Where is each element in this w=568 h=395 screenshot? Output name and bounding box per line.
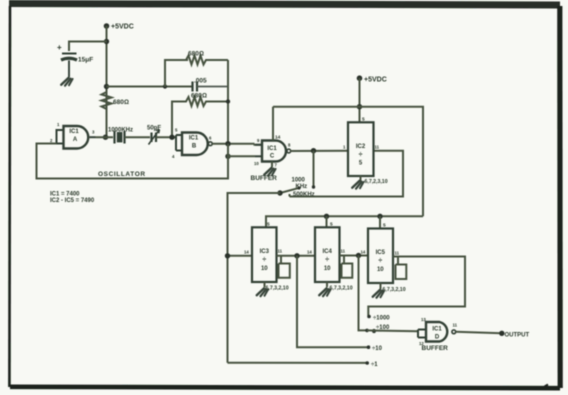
wire IC5 ground stub [380, 283, 382, 289]
svg-text:A: A [73, 137, 78, 143]
svg-text:2: 2 [50, 138, 53, 143]
svg-text:1: 1 [57, 122, 60, 127]
resistor R3 680 ohm (IC1B feedback) [172, 93, 228, 138]
node K (IC5 rail tap) [377, 214, 382, 219]
node R3/output leg [226, 99, 230, 103]
svg-text:10: 10 [377, 267, 384, 273]
parts list note [50, 192, 95, 205]
svg-text:IC1: IC1 [432, 327, 442, 333]
svg-text:680Ω: 680Ω [188, 51, 204, 58]
node div1000 contact [367, 315, 371, 319]
wire R2 left leg [165, 60, 188, 87]
node E (IC1B input / R3) [169, 135, 174, 140]
wire S2 common into IC1D [367, 329, 418, 332]
svg-text:IC4: IC4 [323, 249, 333, 255]
resistor R2 680 ohm (top) [186, 51, 228, 65]
svg-text:IC3: IC3 [260, 249, 270, 255]
svg-text:.005: .005 [194, 78, 207, 85]
svg-text:14: 14 [307, 250, 312, 255]
svg-text:6: 6 [209, 136, 212, 141]
wire node G to IC1C lower input [228, 144, 255, 157]
svg-text:680Ω: 680Ω [113, 99, 129, 106]
wire +5 to counters rail [266, 216, 423, 227]
svg-text:C: C [270, 154, 275, 160]
svg-text:÷10: ÷10 [372, 346, 383, 352]
wire div100 drop [359, 256, 368, 331]
+5VDC terminal (right) [357, 75, 387, 83]
wire IC2 ground stub [360, 176, 362, 182]
trimmer capacitor C3 50pF [147, 126, 161, 145]
jumper loop IC3 pins 12-1 [279, 256, 290, 278]
node A (bypass tap) [104, 39, 109, 44]
svg-text:B: B [192, 144, 197, 150]
op IC1 C nand gate (buffer) [254, 135, 291, 168]
svg-text:500KHz: 500KHz [293, 192, 315, 198]
svg-text:÷100: ÷100 [376, 325, 390, 331]
svg-text:IC1: IC1 [189, 136, 199, 142]
svg-text:OUTPUT: OUTPUT [505, 332, 530, 338]
node H (1000kHz tap) [311, 148, 316, 153]
wire S1 common [228, 193, 281, 363]
node N (div100 tap) [356, 253, 361, 258]
node div10 contact [367, 345, 371, 349]
svg-text:11: 11 [453, 323, 458, 328]
node B (RC tap) [104, 84, 109, 89]
svg-text:IC1: IC1 [69, 129, 79, 135]
wire IC3 ground stub [264, 282, 266, 287]
wire IC4 out to IC5 [340, 255, 369, 257]
switch S1 arm [280, 188, 300, 193]
wire IC1C out to IC2 [291, 150, 348, 152]
svg-text:14: 14 [275, 135, 281, 141]
wire div1 row [228, 362, 368, 364]
resistor R1 680 ohm (vertical) [102, 92, 129, 109]
svg-text:14: 14 [244, 250, 249, 255]
svg-text:10: 10 [254, 161, 259, 166]
svg-text:÷: ÷ [325, 257, 329, 264]
wire node B to C2 [107, 86, 193, 88]
node I (+5 rail junction) [357, 104, 362, 109]
svg-text:7: 7 [275, 163, 278, 168]
svg-text:IC2 - IC5 = 7490: IC2 - IC5 = 7490 [50, 198, 95, 204]
svg-text:+: + [57, 43, 62, 52]
svg-text:D: D [435, 335, 440, 341]
node OUTPUT terminal [499, 331, 504, 336]
svg-text:6,7,3,2,10: 6,7,3,2,10 [266, 286, 289, 292]
ground (IC5) [373, 290, 384, 298]
switch S2 arm [372, 329, 376, 333]
wire IC1A out to crystal [96, 136, 114, 138]
node div100 contact [365, 329, 369, 333]
IC4 divide-by-10 [307, 222, 346, 283]
svg-text:8: 8 [288, 143, 291, 148]
wire 1000kHz contact drop [313, 151, 315, 187]
svg-text:9: 9 [257, 138, 260, 143]
IC3 divide-by-10 [244, 222, 283, 283]
jumper loop IC5 pins 12-1 [396, 257, 407, 280]
op IC1 B nand gate [172, 128, 212, 160]
svg-text:÷: ÷ [262, 257, 266, 264]
svg-text:÷: ÷ [359, 152, 363, 159]
svg-text:OSCILLATOR: OSCILLATOR [98, 171, 146, 178]
ground (IC1C) [264, 168, 275, 176]
wire IC4 ground stub [326, 282, 328, 287]
svg-text:+5VDC: +5VDC [111, 24, 134, 31]
svg-text:5: 5 [175, 128, 178, 133]
svg-text:5: 5 [383, 223, 386, 229]
svg-text:5: 5 [330, 222, 333, 228]
op IC1 A nand gate [50, 122, 96, 149]
svg-text:11: 11 [341, 249, 346, 254]
svg-text:6,7,3,2,10: 6,7,3,2,10 [330, 286, 353, 292]
wire crystal to trimmer [125, 136, 151, 138]
wire IC1D out to OUTPUT [456, 332, 502, 333]
svg-text:÷: ÷ [378, 258, 382, 265]
svg-text:1000KHz: 1000KHz [108, 128, 133, 134]
wire into IC1C upper input [255, 144, 263, 145]
svg-text:6,7,2,3,10: 6,7,2,3,10 [365, 179, 388, 185]
wire switch common to IC3 input [228, 255, 253, 257]
svg-text:680Ω: 680Ω [191, 93, 207, 100]
node J (IC4 rail tap) [324, 214, 329, 219]
wire R2 right leg [227, 60, 229, 144]
node M (div10 tap) [294, 253, 299, 258]
svg-text:11: 11 [278, 249, 283, 254]
svg-text:1000: 1000 [292, 178, 306, 184]
ground (IC4) [319, 288, 330, 296]
svg-text:10: 10 [261, 266, 268, 272]
capacitor C2 .005 [193, 78, 229, 92]
svg-text:IC2: IC2 [356, 144, 366, 150]
IC5 divide-by-10 [361, 223, 400, 284]
node F (IC1B out junction) [225, 141, 230, 146]
svg-text:14: 14 [361, 250, 366, 255]
svg-text:3: 3 [92, 130, 95, 135]
svg-text:IC1 = 7400: IC1 = 7400 [50, 192, 80, 198]
crystal XTAL 1000kHz [108, 128, 133, 144]
svg-text:IC5: IC5 [376, 250, 386, 256]
svg-text:1: 1 [343, 145, 346, 150]
node div1 contact [365, 361, 369, 365]
node D (IC1A out / R1) [103, 135, 108, 140]
svg-text:11: 11 [375, 145, 380, 150]
capacitor C1 15uF [57, 43, 93, 77]
svg-text:10: 10 [324, 266, 331, 272]
wire to capacitor C1 [69, 42, 107, 52]
svg-text:BUFFER: BUFFER [422, 345, 449, 352]
svg-text:11: 11 [395, 251, 400, 256]
wire +5V down to oscillator [106, 26, 108, 137]
svg-text:15μF: 15μF [78, 57, 93, 64]
svg-text:BUFFER: BUFFER [251, 175, 278, 182]
ground (IC2) [352, 181, 363, 189]
wire IC3 out to IC4 [277, 255, 316, 257]
wire IC1B out [212, 143, 254, 145]
ground (IC3) [257, 288, 268, 296]
svg-text:5: 5 [362, 117, 365, 123]
+5VDC terminal (left) [104, 23, 134, 30]
op IC1 D nand gate (output buffer) [418, 317, 458, 346]
wire +5V down [359, 78, 361, 122]
svg-text:5: 5 [359, 161, 363, 167]
svg-text:÷1: ÷1 [371, 362, 378, 368]
svg-text:13: 13 [421, 317, 426, 322]
wire IC5 out loop to div1000 contact [368, 257, 465, 316]
IC2 divide-by-5 [343, 117, 380, 177]
wire +5 rail upper [273, 107, 423, 217]
wire IC1C pin7 ground stub [271, 162, 273, 168]
svg-text:5: 5 [267, 222, 270, 228]
wire IC5 pin5 stub [379, 216, 381, 228]
wire IC1C pin14 to +5 rail [272, 107, 274, 141]
wire IC4 pin5 stub [326, 216, 328, 227]
node C (R2 left leg joins) [163, 84, 167, 88]
500kHz contact line [290, 151, 404, 197]
ground (C1) [61, 78, 72, 86]
svg-text:÷1000: ÷1000 [373, 316, 390, 322]
node L (IC3 input junction) [225, 253, 230, 258]
svg-text:6,7,3,2,10: 6,7,3,2,10 [383, 287, 406, 293]
wire oscillator feedback loop [37, 144, 229, 179]
svg-text:IC1: IC1 [267, 146, 277, 152]
svg-text:+5VDC: +5VDC [364, 77, 387, 84]
wire div10 drop [297, 256, 369, 347]
jumper loop IC4 pins 12-1 [342, 256, 353, 278]
svg-text:50pF: 50pF [147, 126, 161, 132]
node G [225, 154, 230, 159]
wire trimmer to IC1B inputs [156, 136, 176, 138]
svg-text:4: 4 [172, 154, 175, 159]
